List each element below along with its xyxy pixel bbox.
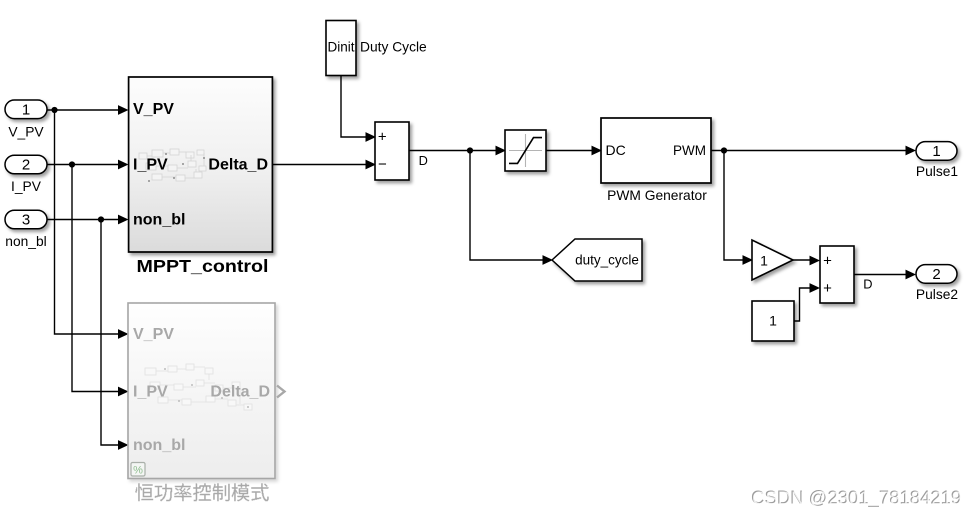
svg-text:non_bl: non_bl <box>133 437 185 454</box>
outport 1 Pulse1 <box>916 142 957 161</box>
svg-text:Dinit: Dinit <box>327 40 354 55</box>
wire MPPT Delta_D to Sum1 minus <box>272 160 376 170</box>
outport 2 Pulse2 <box>916 265 957 284</box>
subsystem PWM Generator <box>601 118 711 183</box>
inport 3 <box>5 210 47 229</box>
label 恒功率控制模式 (vectorized CJK) <box>135 483 269 501</box>
svg-text:I_PV: I_PV <box>133 384 168 401</box>
junction dot after Sum1 <box>467 147 473 153</box>
wire In3 branch down to gray block non_bl <box>101 220 129 450</box>
svg-text:PWM Generator: PWM Generator <box>607 188 707 203</box>
svg-text:+: + <box>823 253 832 270</box>
constant Dinit <box>326 21 356 76</box>
svg-text:I_PV: I_PV <box>133 157 168 174</box>
svg-text:Delta_D: Delta_D <box>208 157 268 174</box>
wire branch down to goto duty_cycle <box>470 151 553 265</box>
svg-text:2: 2 <box>932 266 940 283</box>
saturation block <box>505 130 546 171</box>
watermark CSDN <box>751 487 962 510</box>
junction dot on In2 wire <box>69 161 75 167</box>
wire PWM to Pulse1 <box>711 146 916 156</box>
junction dot on In1 wire <box>51 107 57 113</box>
sum block Sum2 <box>820 246 854 303</box>
junction dot after PWM <box>721 147 727 153</box>
comment-through percent badge <box>131 463 145 477</box>
wire branch down to Gain <box>724 151 753 265</box>
output chevron Delta_D (commented) <box>277 386 285 398</box>
svg-text:CSDN @2301_78184219: CSDN @2301_78184219 <box>752 488 962 510</box>
wire In1 to MPPT V_PV <box>47 105 129 115</box>
svg-text:Delta_D: Delta_D <box>210 384 270 401</box>
svg-text:+: + <box>378 129 387 146</box>
svg-text:V_PV: V_PV <box>133 326 174 343</box>
goto tag duty_cycle <box>552 239 642 281</box>
svg-text:Pulse1: Pulse1 <box>916 164 958 179</box>
wire In3 to MPPT non_bl <box>47 215 129 225</box>
svg-text:V_PV: V_PV <box>133 101 174 118</box>
svg-text:3: 3 <box>22 212 30 229</box>
wire Dinit to Sum1 plus <box>341 76 376 142</box>
wire Gain to Sum2 <box>793 256 820 266</box>
inport 1 <box>5 100 47 119</box>
wire In2 branch down to gray block I_PV <box>72 165 129 397</box>
inport 2 <box>5 155 47 174</box>
wire Constant to Sum2 lower plus <box>794 283 820 321</box>
gain block 1 <box>752 240 793 280</box>
commented subsystem 恒功率控制模式 <box>128 303 285 479</box>
svg-text:1: 1 <box>760 253 768 269</box>
svg-text:non_bl: non_bl <box>5 234 46 249</box>
svg-text:MPPT_control: MPPT_control <box>137 256 269 276</box>
svg-text:D: D <box>863 276 872 291</box>
svg-text:I_PV: I_PV <box>11 179 42 194</box>
svg-text:−: − <box>378 156 387 173</box>
svg-text:Pulse2: Pulse2 <box>916 287 958 302</box>
wire In2 to MPPT I_PV <box>47 160 129 170</box>
svg-text:D: D <box>419 153 428 168</box>
wire Sum1 out to Saturation <box>409 146 506 156</box>
subsystem MPPT_control <box>129 77 273 252</box>
svg-text:non_bl: non_bl <box>133 211 185 228</box>
svg-text:DC: DC <box>606 142 626 158</box>
wire Sum2 to Pulse2 <box>854 270 916 280</box>
wire In1 branch down to gray block V_PV <box>55 110 129 339</box>
sum block Sum1 <box>375 122 409 180</box>
svg-text:1: 1 <box>22 102 30 119</box>
svg-text:V_PV: V_PV <box>8 125 44 140</box>
wire Saturation to PWM Generator <box>546 146 602 156</box>
svg-text:duty_cycle: duty_cycle <box>575 253 639 268</box>
svg-text:Duty Cycle: Duty Cycle <box>360 40 427 55</box>
constant 1 <box>752 301 794 341</box>
svg-text:%: % <box>133 465 143 477</box>
svg-text:2: 2 <box>22 157 30 174</box>
svg-text:1: 1 <box>769 313 777 329</box>
svg-text:1: 1 <box>932 143 940 160</box>
junction dot on In3 wire <box>98 216 104 222</box>
svg-text:PWM: PWM <box>673 143 706 158</box>
svg-text:+: + <box>823 280 832 297</box>
